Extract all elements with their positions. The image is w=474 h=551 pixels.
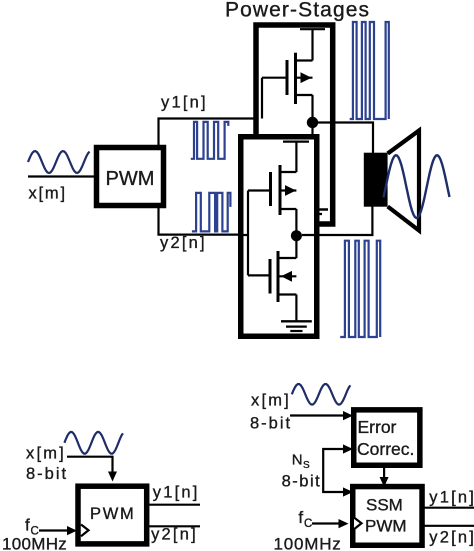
- svg-text:x[m]: x[m]: [26, 445, 66, 463]
- svg-text:y2[n]: y2[n]: [429, 529, 474, 547]
- svg-text:100MHz: 100MHz: [2, 535, 67, 551]
- svg-text:N: N: [292, 452, 303, 469]
- svg-text:Error: Error: [358, 417, 397, 437]
- svg-text:y1[n]: y1[n]: [429, 489, 474, 507]
- svg-text:8-bit: 8-bit: [282, 473, 322, 491]
- svg-text:x[m]: x[m]: [29, 185, 67, 203]
- svg-text:PWM: PWM: [365, 517, 407, 536]
- svg-text:y1[n]: y1[n]: [153, 484, 200, 502]
- svg-text:Correc.: Correc.: [357, 439, 414, 459]
- svg-text:8-bit: 8-bit: [250, 415, 292, 433]
- svg-text:f: f: [25, 516, 30, 535]
- svg-text:Power-Stages: Power-Stages: [225, 0, 370, 22]
- svg-text:f: f: [298, 508, 303, 527]
- svg-text:S: S: [303, 460, 310, 471]
- svg-text:C: C: [304, 518, 312, 530]
- svg-text:x[m]: x[m]: [251, 392, 291, 410]
- svg-text:y1[n]: y1[n]: [161, 94, 208, 112]
- svg-text:100MHz: 100MHz: [274, 535, 342, 551]
- svg-text:y2[n]: y2[n]: [151, 526, 198, 544]
- svg-text:PWM: PWM: [106, 168, 155, 190]
- svg-text:8-bit: 8-bit: [26, 465, 68, 483]
- svg-text:PWM: PWM: [90, 505, 135, 523]
- svg-text:y2[n]: y2[n]: [160, 234, 207, 252]
- svg-text:SSM: SSM: [366, 496, 403, 515]
